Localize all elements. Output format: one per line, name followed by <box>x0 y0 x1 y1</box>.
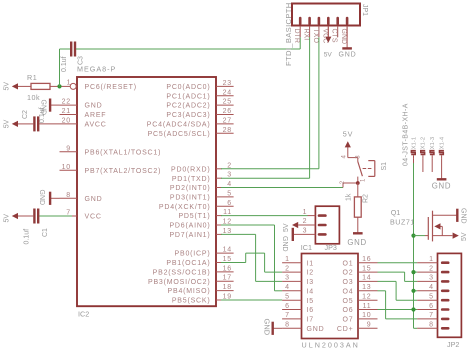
supply 5V arrow at VCC rail <box>4 213 34 223</box>
svg-text:GND: GND <box>460 208 467 224</box>
pin 2 I2 of IC1 stub <box>282 265 314 276</box>
capacitor C3 0.1uf <box>71 42 75 57</box>
svg-text:PC1(ADC1): PC1(ADC1) <box>166 93 210 100</box>
svg-text:X1-4: X1-4 <box>439 136 445 149</box>
pin 7 VCC stub <box>60 210 102 221</box>
pin DTR of JP1 pad and stub <box>293 18 300 43</box>
wire O6 to JP2 pin 6 <box>378 309 418 311</box>
capacitor C2 0.1uf on AVCC <box>34 116 59 131</box>
svg-text:7: 7 <box>429 312 433 319</box>
svg-text:13: 13 <box>223 228 232 235</box>
label C1 <box>42 228 49 237</box>
svg-text:17: 17 <box>223 275 232 282</box>
svg-text:PD4(XCK/T0): PD4(XCK/T0) <box>159 204 211 211</box>
svg-text:S1: S1 <box>381 162 388 171</box>
wire PD7 to IC1 I3 with jog <box>221 234 282 281</box>
svg-text:GND: GND <box>307 326 325 333</box>
label JP2 <box>447 340 459 349</box>
svg-text:10k: 10k <box>27 93 40 102</box>
label GND at pin8 ground <box>38 190 45 206</box>
svg-text:5V: 5V <box>283 223 290 232</box>
svg-text:TXO: TXO <box>312 29 319 44</box>
connector JP1 FTDI_BASICPTH body <box>292 4 360 26</box>
pin X1-2 hook symbol <box>421 137 427 159</box>
svg-text:PD5(T1): PD5(T1) <box>178 213 210 220</box>
ground symbol below JP1 GND <box>339 26 357 59</box>
svg-text:PC6(/RESET): PC6(/RESET) <box>85 84 137 91</box>
svg-text:JP3: JP3 <box>325 243 337 252</box>
svg-text:5: 5 <box>285 294 289 301</box>
svg-text:X1-1: X1-1 <box>411 137 417 149</box>
pin 10 O7 of IC1 stub <box>343 312 378 323</box>
svg-text:7: 7 <box>66 210 71 217</box>
svg-text:GND: GND <box>339 52 357 59</box>
svg-text:I1: I1 <box>307 260 314 267</box>
svg-text:16: 16 <box>362 256 371 263</box>
wire RXI to PD1 TXD <box>221 37 310 178</box>
wire O2 to JP2 pin 3 with jog <box>378 272 418 281</box>
wire O3 to JP2 pin 5 with jog <box>378 281 418 300</box>
pin 12 O5 of IC1 stub <box>343 294 378 305</box>
pin CTS of JP1 pad and stub <box>331 18 338 43</box>
wire TXO to PD0 RXD <box>221 37 319 169</box>
svg-text:DTR: DTR <box>293 29 300 43</box>
pin 3 PD1(TXD) stub <box>172 172 232 183</box>
svg-text:Q1: Q1 <box>391 208 401 217</box>
pin 1 PC6(/RESET) stub with inverting bubble <box>60 79 137 91</box>
svg-text:12: 12 <box>362 294 371 301</box>
pin number 3 of S1 <box>355 155 361 159</box>
pin 13 PD7(AIN1) stub <box>169 228 232 239</box>
pin 16 PB2(SS/OC1B) stub <box>153 265 234 276</box>
svg-text:11: 11 <box>223 209 232 216</box>
svg-text:3: 3 <box>303 228 307 235</box>
pin 15 PB1(OC1A) stub <box>166 256 232 267</box>
svg-text:5V: 5V <box>4 82 11 91</box>
pin X1-1 hook symbol <box>411 137 417 159</box>
pin 21 AREF stub <box>60 108 107 119</box>
pin 3 of JP2 pad and stub <box>417 275 448 282</box>
svg-text:CD+: CD+ <box>337 326 354 333</box>
pin number 2 of S1 <box>340 180 346 184</box>
svg-text:2: 2 <box>429 265 433 272</box>
transistor Q1 BUZ71 MOSFET <box>428 211 457 242</box>
svg-text:15: 15 <box>223 256 232 263</box>
pin 6 of JP2 pad and stub <box>417 303 448 310</box>
label BUZ71 <box>390 218 415 227</box>
microcontroller IC2 MEGA8-P body <box>77 77 216 306</box>
pin 7 I7 of IC1 stub <box>282 312 314 323</box>
svg-text:X1-2: X1-2 <box>421 137 427 149</box>
svg-text:27: 27 <box>223 117 232 124</box>
svg-text:C1: C1 <box>42 228 49 237</box>
svg-text:6: 6 <box>429 303 433 310</box>
svg-text:R1: R1 <box>27 73 37 82</box>
svg-text:ULN2003AN: ULN2003AN <box>302 341 360 350</box>
switch S1 <box>343 148 375 185</box>
ground symbol at pin 8 GND <box>50 192 59 205</box>
svg-text:GND: GND <box>263 319 272 336</box>
svg-text:26: 26 <box>223 108 232 115</box>
svg-text:PB5(SCK): PB5(SCK) <box>172 298 211 305</box>
svg-text:I5: I5 <box>307 298 314 305</box>
pin 8 GND of IC1 stub <box>282 322 324 333</box>
pin 16 O1 of IC1 stub <box>343 256 378 267</box>
connector X1 04-JST-B4B-XH-A label <box>402 103 409 166</box>
pin 25 PC2(ADC2) stub <box>166 99 233 110</box>
pin 14 O3 of IC1 stub <box>343 275 378 286</box>
svg-text:16: 16 <box>223 265 232 272</box>
pin 20 AVCC stub <box>60 117 107 128</box>
svg-text:GND: GND <box>347 238 366 247</box>
label Q1 <box>391 208 401 217</box>
pin 27 PC4(ADC4/SDA) stub <box>147 117 234 128</box>
svg-text:GND: GND <box>281 236 288 252</box>
wire O1 to JP2 pin 1 <box>378 262 418 264</box>
svg-text:24: 24 <box>223 89 232 96</box>
ground symbol below R2 <box>347 233 366 247</box>
pin RXI of JP1 pad and stub <box>303 18 310 40</box>
label JP1 <box>361 4 368 16</box>
pin 2 of JP3 pad <box>303 218 326 225</box>
wire O4 to JP2 pin 7 with jog <box>378 291 418 319</box>
pin 9 PB6(XTAL1/TOSC1) stub <box>60 145 162 156</box>
svg-text:4: 4 <box>429 284 433 291</box>
svg-text:PD6(AIN0): PD6(AIN0) <box>169 223 210 230</box>
svg-text:5: 5 <box>227 190 232 197</box>
label 0.1uf of C2 (overlapping) <box>39 107 46 123</box>
wire PD5 to JP3 pin 1 <box>221 215 308 217</box>
svg-text:11: 11 <box>363 303 372 310</box>
svg-text:1: 1 <box>67 79 71 86</box>
svg-text:1k: 1k <box>345 193 352 201</box>
svg-text:PC0(ADC0): PC0(ADC0) <box>166 84 210 91</box>
svg-text:12: 12 <box>223 219 232 226</box>
wire PB1 to IC1 I2 with jog <box>221 253 282 272</box>
svg-text:4: 4 <box>285 284 289 291</box>
pin 7 of JP2 pad and stub <box>417 312 448 319</box>
svg-text:8: 8 <box>285 322 289 329</box>
svg-text:GND: GND <box>38 190 45 206</box>
svg-text:8: 8 <box>66 192 71 199</box>
svg-text:PB3(MOSI/OC2): PB3(MOSI/OC2) <box>148 279 211 286</box>
svg-text:PD7(AIN1): PD7(AIN1) <box>169 232 210 239</box>
pin 1 of JP3 pad <box>303 209 326 216</box>
supply 5V arrow at JP3 pin 2 <box>283 222 315 232</box>
pin 5 I5 of IC1 stub <box>282 294 314 305</box>
svg-text:6: 6 <box>285 303 289 310</box>
wire reset net from C3 to JP1 DTR <box>76 37 300 49</box>
svg-text:I4: I4 <box>307 288 314 295</box>
pin 19 PB5(SCK) stub <box>172 294 232 305</box>
label C3 <box>77 56 84 65</box>
wire PD2 INT0 to switch S1 <box>221 183 343 188</box>
svg-text:BUZ71: BUZ71 <box>390 218 415 227</box>
pin X1-3 hook symbol <box>430 137 436 159</box>
svg-text:PB6(XTAL1/TOSC1): PB6(XTAL1/TOSC1) <box>85 149 162 156</box>
svg-text:5V: 5V <box>4 214 11 223</box>
svg-text:3: 3 <box>227 172 232 179</box>
pin 2 PD0(RXD) stub <box>171 162 232 173</box>
svg-text:5V: 5V <box>343 130 353 139</box>
svg-text:PD3(INT1): PD3(INT1) <box>170 195 211 202</box>
pin 17 PB3(MOSI/OC2) stub <box>148 275 234 286</box>
pin 1 of JP3 stub <box>308 215 316 217</box>
pin 5 of JP2 pad and stub <box>417 294 448 301</box>
pin 6 PD4(XCK/T0) stub <box>159 200 234 211</box>
label 10k <box>27 93 40 102</box>
svg-text:04-JST-B4B-XH-A: 04-JST-B4B-XH-A <box>402 103 409 166</box>
svg-text:I2: I2 <box>307 270 314 277</box>
label FTDI_BASICPTH <box>284 2 293 66</box>
svg-text:14: 14 <box>223 247 232 254</box>
pin 12 PD6(AIN0) stub <box>169 219 232 230</box>
svg-text:1: 1 <box>429 256 433 263</box>
label GND at pin22 ground <box>40 100 47 116</box>
svg-text:IC2: IC2 <box>78 310 89 319</box>
svg-text:I3: I3 <box>307 279 314 286</box>
label 1k <box>345 193 352 201</box>
svg-text:1: 1 <box>303 209 307 216</box>
pin 6 I6 of IC1 stub <box>282 303 314 314</box>
svg-text:O5: O5 <box>343 298 354 305</box>
svg-text:3: 3 <box>429 275 433 282</box>
pin 4 PD2(INT0) stub <box>170 181 232 192</box>
pin 18 PB4(MISO) stub <box>168 284 234 295</box>
pin TXO of JP1 pad and stub <box>312 18 319 43</box>
label 0.1uf of C3 <box>61 56 68 72</box>
svg-text:22: 22 <box>62 99 71 106</box>
pin 4 of JP2 pad and stub <box>417 284 448 291</box>
svg-text:I7: I7 <box>307 317 314 324</box>
svg-text:JP2: JP2 <box>447 340 459 349</box>
svg-text:15: 15 <box>362 265 371 272</box>
svg-text:C2: C2 <box>22 110 29 119</box>
capacitor C1 0.1uf on VCC <box>34 209 38 224</box>
label C2 <box>22 110 29 119</box>
pin 24 PC1(ADC1) stub <box>166 89 233 100</box>
svg-text:FTDI_BASICPTH: FTDI_BASICPTH <box>284 2 293 66</box>
connector JP3 body <box>315 206 339 244</box>
ground symbol below X1-4 <box>432 159 451 191</box>
supply 5V arrow at reset rail <box>4 82 31 91</box>
svg-text:PB2(SS/OC1B): PB2(SS/OC1B) <box>153 270 211 277</box>
connector JP2 body <box>438 253 462 337</box>
driver IC1 ULN2003AN body <box>302 254 359 339</box>
svg-text:21: 21 <box>62 108 71 115</box>
svg-text:PB1(OC1A): PB1(OC1A) <box>166 260 210 267</box>
svg-text:PD1(TXD): PD1(TXD) <box>172 176 211 183</box>
svg-text:PC2(ADC2): PC2(ADC2) <box>166 103 210 110</box>
svg-text:GND: GND <box>340 29 347 45</box>
svg-text:PB0(ICP): PB0(ICP) <box>175 251 211 258</box>
resistor R2 1k <box>354 183 361 233</box>
svg-text:5V: 5V <box>324 52 333 59</box>
svg-text:3: 3 <box>285 275 289 282</box>
ground symbol at Q1 drain <box>457 208 466 224</box>
svg-text:VCC: VCC <box>321 29 328 44</box>
pin X1-3 stub <box>431 159 433 172</box>
pin 1 I1 of IC1 stub <box>282 256 314 267</box>
svg-text:AVCC: AVCC <box>85 122 107 129</box>
svg-text:R2: R2 <box>362 194 369 203</box>
pin 26 PC3(ADC3) stub <box>166 108 233 119</box>
ground symbol at IC1 pin 8 <box>263 319 283 336</box>
junction node at JP2 pin 6 branch <box>411 307 415 311</box>
label R2 <box>362 194 369 203</box>
pin GND of JP1 pad and stub <box>340 18 347 44</box>
svg-text:19: 19 <box>223 294 232 301</box>
svg-text:PD2(INT0): PD2(INT0) <box>170 185 211 192</box>
svg-text:O7: O7 <box>343 317 354 324</box>
pin 3 of JP3 pad <box>303 228 326 235</box>
svg-text:O6: O6 <box>343 307 354 314</box>
label S1 <box>381 162 388 171</box>
wire X1-1 down to Q1 gate junction and JP2 <box>414 159 418 329</box>
svg-text:2: 2 <box>227 162 232 169</box>
svg-text:GND: GND <box>432 181 451 190</box>
svg-text:GND: GND <box>85 196 103 203</box>
svg-text:20: 20 <box>62 117 71 124</box>
ground symbol at JP3 pin 3 <box>281 228 315 252</box>
junction node Q1 gate on X1-1 net <box>411 234 415 238</box>
label IC1 <box>301 243 312 252</box>
pin 9 CD+ of IC1 stub <box>337 322 378 333</box>
junction node at JP2 pin 2 branch <box>411 270 415 274</box>
svg-text:0.1uf: 0.1uf <box>24 229 31 245</box>
svg-text:O1: O1 <box>343 260 354 267</box>
svg-text:0.1uf: 0.1uf <box>61 56 68 72</box>
svg-text:PC4(ADC4/SDA): PC4(ADC4/SDA) <box>147 122 211 129</box>
pin 15 O2 of IC1 stub <box>343 265 378 276</box>
pin 28 PC5(ADC5/SCL) stub <box>148 127 234 138</box>
pin 23 PC0(ADC0) stub <box>166 80 233 91</box>
svg-text:14: 14 <box>362 275 371 282</box>
pin VCC of JP1 pad and stub <box>321 18 328 43</box>
svg-text:25: 25 <box>223 99 232 106</box>
wire main vertical net branch to JP2 pin 4 <box>414 290 418 292</box>
pin 8 of JP2 pad and stub <box>417 322 448 329</box>
svg-text:O4: O4 <box>343 288 354 295</box>
pin number 1 of S1 <box>360 178 366 182</box>
svg-text:IC1: IC1 <box>301 243 312 252</box>
supply 5V arrow at AVCC rail <box>4 119 34 128</box>
pin 5 PD3(INT1) stub <box>170 190 234 201</box>
svg-text:O2: O2 <box>343 270 354 277</box>
pin 10 PB7(XTAL2/TOSC2) stub <box>60 164 162 175</box>
svg-text:10: 10 <box>362 312 371 319</box>
svg-text:CTS: CTS <box>331 29 338 43</box>
pin number 4 of S1 <box>341 155 347 159</box>
wire VCC C1 to pin 7 <box>39 215 77 217</box>
svg-text:13: 13 <box>362 284 371 291</box>
svg-text:PB7(XTAL2/TOSC2): PB7(XTAL2/TOSC2) <box>85 168 162 175</box>
svg-text:28: 28 <box>223 127 232 134</box>
supply 5V arrow below JP1 VCC <box>324 26 333 59</box>
wire reset net up to C3 <box>60 49 71 86</box>
label IC2 <box>78 310 89 319</box>
wire junction to Q1 gate <box>414 235 429 237</box>
wire PD6 to IC1 I4 with jog <box>221 225 282 291</box>
pin X1-2 stub <box>422 159 424 172</box>
pin 8 GND stub <box>60 192 103 203</box>
svg-text:5V: 5V <box>461 232 468 241</box>
svg-text:X1-3: X1-3 <box>430 137 436 149</box>
resistor R1 10k <box>31 83 60 89</box>
pin 11 PD5(T1) stub <box>178 209 232 220</box>
svg-text:9: 9 <box>66 145 71 152</box>
svg-text:2: 2 <box>285 265 289 272</box>
label ULN2003AN <box>302 341 360 350</box>
junction node at JP2 pin 4 branch <box>411 289 415 293</box>
label JP3 <box>325 243 337 252</box>
svg-text:18: 18 <box>223 284 232 291</box>
svg-text:GND: GND <box>85 103 103 110</box>
svg-text:PB4(MISO): PB4(MISO) <box>168 288 211 295</box>
svg-text:RXI: RXI <box>303 29 310 41</box>
junction node reset net <box>57 84 61 88</box>
wire main vertical net branches to JP2 pin 2 <box>414 271 418 273</box>
svg-text:5V: 5V <box>4 119 11 128</box>
svg-text:VCC: VCC <box>85 214 102 221</box>
svg-text:10: 10 <box>62 164 71 171</box>
svg-text:6: 6 <box>227 200 232 207</box>
pin X1-4 hook symbol <box>439 136 445 158</box>
svg-text:23: 23 <box>223 80 232 87</box>
svg-text:AREF: AREF <box>85 112 107 119</box>
svg-text:O3: O3 <box>343 279 354 286</box>
pin 3 I3 of IC1 stub <box>282 275 314 286</box>
svg-text:I6: I6 <box>307 307 314 314</box>
svg-text:0.1uf: 0.1uf <box>39 107 46 123</box>
svg-text:9: 9 <box>367 322 372 329</box>
svg-text:2: 2 <box>303 218 307 225</box>
ground symbol at pin 22 GND <box>50 99 59 112</box>
svg-text:7: 7 <box>285 312 289 319</box>
supply 5V arrow at Q1 source <box>453 232 468 241</box>
pin 13 O4 of IC1 stub <box>343 284 378 295</box>
svg-text:8: 8 <box>429 322 433 329</box>
pin 1 of JP2 pad and stub <box>417 256 448 263</box>
pin 11 O6 of IC1 stub <box>343 303 378 314</box>
pin 22 GND stub <box>60 99 103 110</box>
svg-text:PD0(RXD): PD0(RXD) <box>171 166 210 173</box>
svg-text:1: 1 <box>285 256 289 263</box>
pin 2 of JP2 pad and stub <box>417 265 448 272</box>
label MEGA8-P <box>77 65 116 74</box>
svg-text:PC5(ADC5/SCL): PC5(ADC5/SCL) <box>148 131 211 138</box>
svg-text:PC3(ADC3): PC3(ADC3) <box>166 112 210 119</box>
pin 4 I4 of IC1 stub <box>282 284 314 295</box>
label 0.1uf of C1 <box>24 229 31 245</box>
wire PB5 to IC1 I5 <box>221 299 282 301</box>
pin 14 PB0(ICP) stub <box>175 247 234 258</box>
label R1 <box>27 73 37 82</box>
supply 5V arrow above S1 <box>343 130 353 148</box>
svg-text:C3: C3 <box>77 56 84 65</box>
svg-text:4: 4 <box>227 181 232 188</box>
svg-text:JP1: JP1 <box>361 4 368 16</box>
svg-text:5: 5 <box>429 294 433 301</box>
